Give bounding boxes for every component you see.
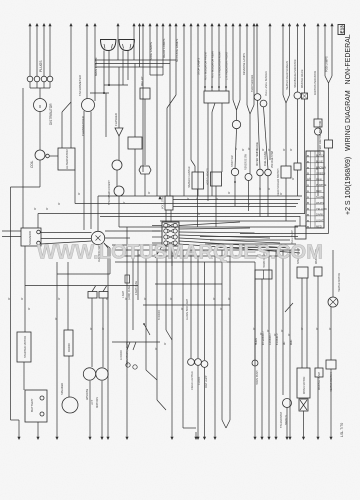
svg-text:WIPER MOTOR: WIPER MOTOR bbox=[303, 376, 306, 394]
svg-text:TACHOMETER: TACHOMETER bbox=[78, 74, 82, 96]
svg-text:L.H. INDICATOR FRONT: L.H. INDICATOR FRONT bbox=[226, 51, 229, 80]
svg-text:WATER TEMP GAUGE: WATER TEMP GAUGE bbox=[256, 142, 259, 166]
svg-text:WHITE: WHITE bbox=[316, 201, 325, 205]
svg-text:HOT FLASHER: HOT FLASHER bbox=[207, 168, 210, 185]
svg-text:B: B bbox=[307, 166, 309, 170]
svg-text:MAP LAMP: MAP LAMP bbox=[205, 375, 208, 388]
svg-text:SWITCH: SWITCH bbox=[285, 415, 288, 425]
svg-text:LIGHT: LIGHT bbox=[316, 219, 324, 223]
svg-text:REAR LAMPS: REAR LAMPS bbox=[162, 39, 166, 58]
svg-text:GREEN: GREEN bbox=[316, 171, 325, 175]
svg-text:HEATED REAR SCREEN: HEATED REAR SCREEN bbox=[286, 61, 289, 90]
svg-text:A DOOR LT: A DOOR LT bbox=[269, 332, 272, 345]
svg-text:SLATE: SLATE bbox=[316, 195, 324, 199]
svg-text:B: B bbox=[307, 219, 309, 223]
svg-text:SPEAKER: SPEAKER bbox=[60, 383, 64, 395]
svg-text:STOP SW: STOP SW bbox=[231, 155, 234, 167]
svg-text:B DOOR LT: B DOOR LT bbox=[277, 332, 279, 345]
svg-text:R.H. INDICATOR FRONT: R.H. INDICATOR FRONT bbox=[205, 51, 208, 80]
svg-text:COIL: COIL bbox=[30, 160, 34, 168]
svg-text:(COURTESY) LAMPS: (COURTESY) LAMPS bbox=[126, 341, 129, 365]
svg-text:FUEL LEVEL SENDER: FUEL LEVEL SENDER bbox=[265, 71, 268, 96]
svg-text:B: B bbox=[307, 160, 309, 164]
svg-text:B: B bbox=[307, 201, 309, 205]
svg-text:BATTERY: BATTERY bbox=[30, 398, 34, 412]
svg-text:+2 S 100(1968/69) WIRING DIA: +2 S 100(1968/69) WIRING DIAGRAM NON-FED… bbox=[345, 34, 352, 215]
svg-text:B: B bbox=[307, 195, 309, 199]
svg-text:WINDOW: WINDOW bbox=[86, 388, 89, 400]
svg-text:VOLTAGE STAB: VOLTAGE STAB bbox=[271, 151, 274, 168]
svg-text:STARTER MOTOR: STARTER MOTOR bbox=[23, 336, 27, 358]
svg-text:LSL 7/70: LSL 7/70 bbox=[340, 423, 344, 437]
svg-text:RD: RD bbox=[284, 341, 286, 345]
svg-text:REAR SCREEN SWITCH: REAR SCREEN SWITCH bbox=[277, 168, 280, 196]
svg-text:CIGAR LIGHTER: CIGAR LIGHTER bbox=[191, 371, 194, 390]
svg-text:HANDBRAKE INDICATOR: HANDBRAKE INDICATOR bbox=[294, 59, 297, 88]
svg-text:RED: RED bbox=[316, 189, 322, 193]
svg-text:POD LAMPS: POD LAMPS bbox=[325, 56, 329, 72]
svg-text:R.H. INDICATOR REAR: R.H. INDICATOR REAR bbox=[212, 51, 215, 78]
svg-text:PINK: PINK bbox=[316, 177, 322, 181]
svg-text:CHANGEOVER: CHANGEOVER bbox=[81, 116, 85, 136]
svg-text:SIDE LAMPS: SIDE LAMPS bbox=[149, 42, 153, 60]
svg-text:L.H. INDICATOR REAR: L.H. INDICATOR REAR bbox=[219, 51, 222, 78]
svg-text:SOLENOID: SOLENOID bbox=[28, 231, 32, 245]
svg-text:INTERIOR LT: INTERIOR LT bbox=[263, 330, 265, 345]
svg-text:REVERSE LAMPS: REVERSE LAMPS bbox=[242, 53, 246, 75]
svg-text:THERMOSTAT: THERMOSTAT bbox=[280, 411, 283, 428]
svg-text:RADIO: RADIO bbox=[67, 342, 71, 352]
svg-text:B: B bbox=[307, 213, 309, 217]
svg-text:2 AMP FUSE: 2 AMP FUSE bbox=[135, 281, 138, 295]
svg-text:CLOCK: CLOCK bbox=[198, 376, 201, 385]
svg-text:ALTERNATOR: ALTERNATOR bbox=[65, 148, 69, 169]
svg-text:TEMP SENDER: TEMP SENDER bbox=[251, 75, 254, 92]
svg-text:B: B bbox=[307, 207, 309, 211]
svg-text:MED: MED bbox=[316, 225, 322, 229]
svg-text:No PLATE LAMPS: No PLATE LAMPS bbox=[175, 39, 179, 62]
svg-text:A DOOR: A DOOR bbox=[120, 350, 123, 360]
svg-text:(LOW) FUSE: (LOW) FUSE bbox=[128, 286, 131, 300]
svg-text:HEATER MOTOR: HEATER MOTOR bbox=[338, 273, 341, 292]
svg-text:RELAY: RELAY bbox=[140, 76, 144, 86]
svg-text:HORN PUSH: HORN PUSH bbox=[256, 370, 259, 385]
svg-text:FUEL GAUGE: FUEL GAUGE bbox=[264, 151, 267, 166]
svg-text:B: B bbox=[307, 172, 309, 176]
svg-text:PURPLE: PURPLE bbox=[316, 183, 327, 187]
svg-text:BLUE: BLUE bbox=[316, 160, 323, 164]
svg-text:PLUGS: PLUGS bbox=[39, 60, 43, 72]
svg-text:E13: E13 bbox=[339, 25, 344, 34]
svg-text:B DOOR: B DOOR bbox=[158, 310, 161, 320]
svg-text:VOLT. STAB: VOLT. STAB bbox=[162, 195, 165, 209]
svg-text:DARK: DARK bbox=[316, 213, 323, 217]
svg-text:1 AMP: 1 AMP bbox=[122, 291, 125, 298]
svg-text:WWW.LOTUSMARQUES.COM: WWW.LOTUSMARQUES.COM bbox=[37, 242, 323, 264]
svg-text:GLOVE BOX LAMP: GLOVE BOX LAMP bbox=[186, 298, 189, 320]
svg-text:DISTRIBUTOR: DISTRIBUTOR bbox=[49, 103, 53, 125]
svg-text:HAZARD FLASHER: HAZARD FLASHER bbox=[188, 166, 191, 188]
svg-text:MOTORS: MOTORS bbox=[96, 397, 99, 408]
svg-text:B: B bbox=[307, 225, 309, 229]
svg-text:YELLOW: YELLOW bbox=[316, 207, 327, 211]
svg-text:HEATER SWITCH: HEATER SWITCH bbox=[330, 372, 333, 392]
svg-text:LIFT: LIFT bbox=[91, 399, 94, 405]
svg-text:WASHER VALVE: WASHER VALVE bbox=[301, 69, 304, 88]
svg-text:STOP LAMPS: STOP LAMPS bbox=[197, 58, 201, 75]
svg-text:B: B bbox=[307, 154, 309, 158]
svg-text:HORN: HORN bbox=[256, 338, 258, 345]
svg-text:BATTERY IGNITION INDICATOR: BATTERY IGNITION INDICATOR bbox=[319, 120, 322, 155]
svg-text:B: B bbox=[307, 189, 309, 193]
svg-text:REVERSE SW: REVERSE SW bbox=[245, 153, 248, 170]
svg-text:BLACK: BLACK bbox=[316, 154, 325, 158]
svg-text:B: B bbox=[307, 184, 309, 188]
svg-text:IGNITION INDICATOR: IGNITION INDICATOR bbox=[314, 71, 317, 95]
svg-text:MUD: MUD bbox=[291, 339, 293, 345]
svg-text:WASHER PUMP: WASHER PUMP bbox=[318, 372, 321, 390]
svg-text:FLASHER: FLASHER bbox=[114, 113, 118, 126]
